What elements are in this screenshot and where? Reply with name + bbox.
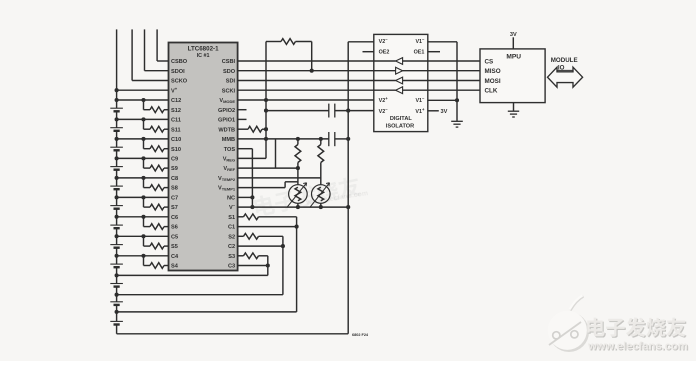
wire MPU ground lead (513, 103, 515, 111)
svg-text:MODULE: MODULE (551, 57, 578, 64)
svg-text:DIGITAL: DIGITAL (390, 116, 413, 122)
wire GPIO2 stub (238, 109, 247, 111)
wire TOS down (238, 148, 253, 150)
svg-text:S9: S9 (171, 166, 178, 172)
elecfans corner watermark text (588, 318, 686, 337)
resistor R6 thermistor pullup 1 (295, 145, 301, 163)
node VMODE-VREG junction (264, 98, 268, 102)
resistor R5 WDTB pullup (238, 128, 248, 130)
svg-text:MISO: MISO (485, 68, 501, 75)
node C6 tap (141, 215, 145, 219)
wire thermistor1 top lead (297, 168, 299, 185)
digital isolator U2 body (374, 34, 428, 131)
buffer A2 right (396, 67, 403, 74)
resistor R11 discharge S11 (143, 119, 145, 129)
module io double arrow (548, 67, 583, 87)
resistor R10 discharge S10 (143, 139, 145, 149)
wire C1 row (238, 226, 297, 228)
svg-text:MMB: MMB (222, 137, 235, 143)
wire thermistor bottoms to V- row (297, 203, 299, 207)
svg-text:CLK: CLK (485, 88, 498, 95)
wire daisy-chain V+ / battery column top (116, 29, 118, 100)
label IO underline (555, 69, 573, 71)
buffer A3 left (396, 77, 403, 84)
svg-text:SCKO: SCKO (171, 79, 188, 85)
wire OE2 stub (363, 51, 374, 53)
wire MMB row to cap (238, 138, 329, 140)
svg-text:S3: S3 (228, 254, 235, 260)
svg-text:SCKI: SCKI (222, 88, 236, 94)
battery cell B9 (116, 158, 118, 166)
svg-text:C3: C3 (228, 264, 235, 270)
wire SDO inside isolator (374, 70, 396, 72)
wire isolator V1- top to ground rail (428, 41, 457, 43)
svg-text:VTEMP2: VTEMP2 (218, 176, 236, 182)
node V2- cap junction right (346, 109, 350, 113)
battery cell B1 (116, 312, 118, 322)
node C4 tap (141, 254, 145, 258)
wire NC stub (238, 196, 253, 198)
wire VTEMP1 staircase (238, 187, 286, 189)
wire cell3 tap wrap to C3 (117, 274, 268, 276)
battery cell B12 (116, 100, 118, 108)
svg-text:C7: C7 (171, 196, 178, 202)
svg-text:NC: NC (227, 196, 235, 202)
svg-text:C5: C5 (171, 234, 178, 240)
resistor R4 discharge S4 (143, 256, 145, 266)
svg-text:MPU: MPU (506, 54, 521, 61)
svg-text:S12: S12 (171, 108, 181, 114)
svg-text:VREF: VREF (223, 166, 235, 172)
resistor R4 SDO pullup (266, 41, 281, 43)
node C7 tap (141, 195, 145, 199)
svg-text:S6: S6 (171, 225, 178, 231)
node V- rail (346, 205, 350, 209)
wire VREF row (238, 167, 298, 169)
wire VTEMP2 row (238, 177, 321, 179)
node V+ junction (115, 88, 119, 92)
svg-text:GPIO1: GPIO1 (218, 118, 235, 124)
svg-text:C11: C11 (171, 118, 181, 124)
node C3 junction (266, 263, 270, 267)
wire CSBI inside isolator (374, 60, 396, 62)
capacitor C-VREF bypass (328, 132, 330, 146)
wire C8 to cell tap (117, 177, 169, 179)
wire SCKI-CLK (238, 89, 374, 91)
svg-text:C6: C6 (171, 215, 178, 221)
thermistor RT2 (312, 185, 331, 204)
resistor R1 discharge S1 (238, 216, 244, 218)
battery cell B10 (116, 139, 118, 147)
buffer A1 left (396, 58, 403, 65)
battery cell B3 (116, 275, 118, 283)
svg-text:C9: C9 (171, 157, 178, 163)
wire C2 row (238, 245, 283, 247)
wire SDI-MOSI (238, 80, 374, 82)
svg-text:S2: S2 (228, 234, 235, 240)
wire daisy-chain CSBO (156, 29, 158, 61)
node NC-TOS junction (250, 195, 254, 199)
svg-text:IC #1: IC #1 (197, 53, 210, 59)
wire C9 to cell tap (117, 157, 169, 159)
svg-text:CSBO: CSBO (171, 59, 188, 65)
wire CSBI-CS (238, 60, 374, 62)
node C1 junction (295, 225, 299, 229)
battery cell B5 (116, 236, 118, 244)
IC U1 LTC6802-1 body (169, 43, 238, 271)
resistor R7 thermistor pullup 2 (318, 145, 324, 163)
node C5 tap (141, 234, 145, 238)
wire SDO-MISO (238, 70, 374, 72)
node battery junction 5 (115, 234, 119, 238)
wire C12 to cell tap (117, 99, 169, 101)
ground isolator side1 (451, 120, 463, 122)
svg-text:SDI: SDI (226, 79, 236, 85)
wire isolator V1- bottom (428, 99, 457, 101)
svg-text:VMODE: VMODE (219, 98, 235, 104)
svg-text:VREG: VREG (223, 157, 235, 163)
node battery junction 9 (115, 156, 119, 160)
resistor R8 discharge S8 (143, 178, 145, 188)
faint center watermark elecfans (253, 175, 361, 218)
svg-text:C4: C4 (171, 254, 179, 260)
resistor R3 discharge S3 (238, 255, 244, 257)
node battery junction 2 (115, 293, 119, 297)
node C9 tap (141, 156, 145, 160)
node R6 top junction (296, 137, 300, 141)
IC U1 left pin labels (171, 59, 188, 270)
svg-text:LTC6802-1: LTC6802-1 (188, 46, 219, 53)
node battery junction 8 (115, 176, 119, 180)
svg-text:C10: C10 (171, 137, 181, 143)
svg-text:OE1: OE1 (414, 50, 425, 56)
node battery junction 1 (115, 310, 119, 314)
ground MPU (508, 110, 519, 112)
node V- t1 (296, 205, 300, 209)
wire VREG-row drop to VREF row (275, 139, 277, 168)
resistor R9 discharge S9 (143, 158, 145, 168)
node battery junction 4 (115, 254, 119, 258)
svg-text:S5: S5 (171, 244, 178, 250)
svg-text:GPIO2: GPIO2 (218, 108, 235, 114)
wire C10 to cell tap (117, 138, 169, 140)
node battery junction 3 (115, 273, 119, 277)
node battery junction 10 (115, 137, 119, 141)
svg-text:3V: 3V (441, 109, 448, 115)
node SDO pullup junction (310, 69, 314, 73)
svg-text:SDOI: SDOI (171, 69, 185, 75)
MPU U3 body (480, 49, 545, 103)
battery cell B6 (116, 217, 118, 225)
wire MPU 3V (512, 37, 514, 49)
svg-text:S10: S10 (171, 147, 181, 153)
battery cell B11 (116, 119, 118, 127)
svg-text:VTEMP1: VTEMP1 (218, 186, 236, 192)
svg-text:MOSI: MOSI (485, 78, 501, 85)
svg-text:TOS: TOS (224, 147, 236, 153)
resistor R2 discharge S2 (238, 235, 244, 237)
wire SCKI inside isolator (374, 89, 396, 91)
node V2- cap junction left (264, 109, 268, 113)
svg-text:S4: S4 (171, 264, 179, 270)
svg-text:CSBI: CSBI (222, 59, 236, 65)
svg-text:6802 F24: 6802 F24 (352, 333, 369, 337)
wire VREG rail vertical (265, 42, 267, 159)
node battery junction 11 (115, 117, 119, 121)
node C10 tap (141, 137, 145, 141)
wire C11 to cell tap (117, 118, 169, 120)
wire cell1 tap wrap to C1 (117, 311, 297, 313)
battery cell B8 (116, 178, 118, 186)
wire V+ pin (117, 89, 169, 91)
resistor R5 discharge S5 (143, 236, 145, 246)
node R7 top junction (319, 137, 323, 141)
battery cell B2 (116, 295, 118, 302)
thermistor RT1 (289, 185, 308, 204)
svg-text:www.elecfans.com: www.elecfans.com (587, 341, 688, 353)
wire isolator V2- top to V- rail (348, 41, 374, 43)
node battery junction 12 (115, 98, 119, 102)
svg-text:S1: S1 (228, 215, 235, 221)
wire C3 row (238, 265, 268, 267)
wire GPIO1 stub (238, 118, 247, 120)
node TOS-Vminus junction (250, 205, 254, 209)
battery cell B4 (116, 256, 118, 264)
svg-text:S8: S8 (171, 186, 178, 192)
svg-text:ISOLATOR: ISOLATOR (386, 123, 414, 129)
wire V- row (238, 206, 349, 208)
resistor R7 discharge S7 (143, 197, 145, 207)
wire V1+ 3V stub (428, 110, 439, 112)
resistor R6 discharge S6 (143, 217, 145, 227)
wire daisy-chain SDOI (144, 29, 146, 70)
node MMB-VREG junction (264, 137, 268, 141)
svg-text:CS: CS (485, 58, 494, 65)
wire C7 to cell tap (117, 196, 169, 198)
svg-text:S11: S11 (171, 127, 181, 133)
IC U1 right pin labels (218, 59, 236, 270)
node C8 tap (141, 176, 145, 180)
svg-text:S7: S7 (171, 205, 178, 211)
wire C6 to cell tap (117, 216, 169, 218)
wire OE1 stub (428, 51, 440, 53)
node battery junction 6 (115, 215, 119, 219)
node C11 tap (141, 117, 145, 121)
node V1- junction (455, 98, 459, 102)
wire C5 to cell tap (117, 235, 169, 237)
buffer A4 left (396, 87, 403, 94)
node C2 junction (281, 244, 285, 248)
svg-text:C2: C2 (228, 244, 235, 250)
svg-text:C1: C1 (228, 225, 235, 231)
wire VMODE to isolator V2+ (238, 99, 374, 101)
node C12 tap (141, 98, 145, 102)
elecfans corner watermark logo (549, 312, 589, 352)
svg-text:WDTB: WDTB (218, 127, 235, 133)
svg-text:OE2: OE2 (379, 50, 390, 56)
svg-text:3V: 3V (510, 32, 517, 38)
node cap2 right junction (346, 137, 350, 141)
wire SDI inside isolator (374, 80, 396, 82)
wire cell2 tap wrap to C2 (117, 294, 283, 296)
node V- t2 (319, 205, 323, 209)
node battery junction 7 (115, 195, 119, 199)
wire C4 to cell tap (117, 255, 169, 257)
wire daisy-chain SCKO (131, 29, 133, 80)
label IO underline tick (552, 70, 555, 73)
node VREF thermistor1 junction (296, 166, 300, 170)
capacitor C-VREG bypass (266, 110, 329, 112)
resistor R12 discharge S12 (143, 100, 145, 110)
svg-text:C12: C12 (171, 98, 181, 104)
battery cell B7 (116, 197, 118, 205)
svg-text:SDO: SDO (223, 69, 236, 75)
svg-text:C8: C8 (171, 176, 178, 182)
wire battery bottom rail to V- (117, 333, 349, 335)
